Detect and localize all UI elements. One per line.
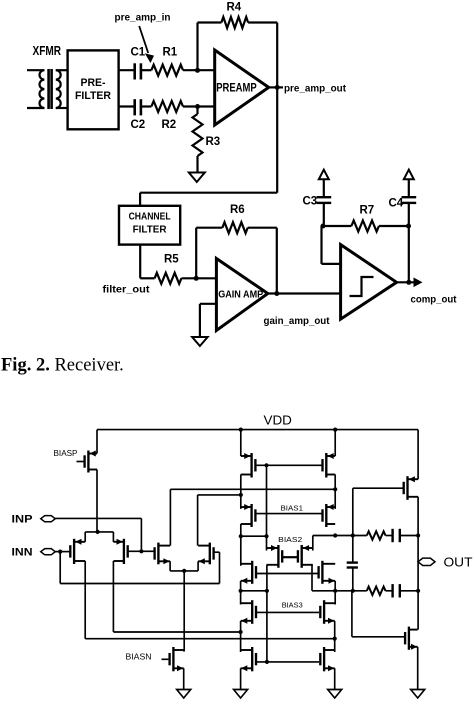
wire C1 to R1 — [141, 69, 152, 71]
wire M3 drain cross to right column — [169, 489, 171, 545]
svg-text:comp_out: comp_out — [411, 295, 458, 306]
svg-text:BIAS2: BIAS2 — [278, 535, 302, 544]
comparator — [341, 245, 397, 320]
svg-text:R1: R1 — [163, 47, 178, 59]
svg-text:gain_amp_out: gain_amp_out — [264, 316, 331, 327]
op-amp GAIN AMP — [216, 259, 267, 331]
wire left column MP3 to MP5 — [240, 475, 242, 509]
svg-text:XFMR: XFMR — [33, 44, 62, 58]
transistor MP6 (PMOS cascode BIAS1 right) — [323, 504, 336, 527]
wire MNOUT gate — [352, 636, 405, 638]
port INN — [41, 549, 56, 555]
wire output node vertical — [417, 497, 419, 630]
node gain_amp_out — [268, 292, 341, 294]
transformer XFMR — [27, 69, 68, 109]
supply arrow above C3 — [319, 170, 329, 180]
wire BIAS1 gate tie — [255, 513, 322, 515]
transistor MP3 (PMOS mirror top left) — [241, 453, 256, 478]
svg-text:BIAS3: BIAS3 — [282, 600, 303, 609]
hysteresis symbol — [350, 277, 374, 296]
wire BIASN source to ground — [183, 668, 185, 689]
wire BIASN gate stub — [162, 658, 169, 660]
wire right column MP4 to MP6 — [334, 475, 336, 509]
capacitor Cz2 on rail2 — [386, 590, 393, 592]
transistor M1 (PMOS input pair left) — [70, 539, 85, 564]
wire MNC_R source to ground — [334, 668, 336, 689]
wire R4 to pre_amp_out — [248, 21, 277, 23]
svg-text:filter_out: filter_out — [103, 285, 151, 296]
resistor R6 — [222, 222, 247, 233]
transistor MBIASN (NMOS bias) — [170, 647, 184, 671]
resistor Rz2 on rail2 — [367, 587, 386, 595]
wire M2 drain to left column node — [113, 631, 240, 633]
transistor MNA_L (NMOS cascode left) — [241, 561, 256, 584]
svg-text:Fig. 2. Receiver.: Fig. 2. Receiver. — [1, 355, 124, 375]
wire MN3R source down to row C — [334, 621, 336, 652]
port INP — [41, 516, 56, 522]
wire rail1 left segment — [241, 535, 267, 537]
transistor MNC_L (NMOS tail left) — [241, 647, 256, 671]
supply arrow above C4 — [404, 170, 414, 180]
wire row C gate tie — [256, 661, 319, 663]
svg-text:BIASN: BIASN — [126, 653, 152, 662]
wire BIASN drain stub up — [183, 650, 185, 652]
svg-text:R2: R2 — [162, 119, 177, 131]
svg-text:pre_amp_in: pre_amp_in — [115, 13, 171, 24]
transistor MNOUT (NMOS output) — [405, 627, 418, 650]
svg-text:INN: INN — [12, 546, 33, 558]
transistor MB2L (PMOS BIAS2 left) — [267, 545, 283, 568]
wire R7 to C4 node — [379, 225, 410, 227]
svg-text:CHANNEL: CHANNEL — [129, 212, 171, 223]
capacitor Cc between rails — [347, 561, 358, 563]
wire rail2 left segment — [241, 590, 267, 592]
wire BIASP drain to VDD — [96, 430, 98, 454]
svg-text:R7: R7 — [360, 205, 375, 217]
transistor M2 (PMOS input pair right) — [113, 539, 127, 564]
svg-text:FILTER: FILTER — [75, 90, 111, 102]
transistor MN3R (NMOS BIAS3 right) — [320, 600, 334, 624]
wire MP5 drain to rail1 left — [240, 524, 242, 566]
wire MNOUT source to ground — [417, 647, 419, 690]
wire C2 to R2 — [141, 105, 152, 107]
block CHANNEL FILTER — [119, 206, 180, 245]
svg-text:BIASP: BIASP — [54, 449, 78, 458]
wire INN to M1 gate — [55, 551, 70, 553]
wire BIAS3 gate tie — [256, 611, 319, 613]
wire left column VDD to MP3 — [240, 430, 242, 456]
wire MNC_L source to ground — [240, 668, 242, 689]
wire comparator output comp_out — [408, 226, 410, 282]
wire pair2 tail to BIASN drain — [183, 571, 185, 652]
wire M3 gate to INP node — [141, 550, 154, 552]
wire MN3L source down to row C — [240, 621, 242, 652]
wire MNA_L source down — [240, 581, 242, 605]
transistor MB2R (PMOS BIAS2 right) — [298, 545, 313, 568]
gain amp grounded input — [200, 303, 217, 305]
wire BIASP source to diff pair tail — [96, 470, 98, 532]
svg-text:GAIN AMP: GAIN AMP — [218, 288, 263, 300]
transistor MN3L (NMOS BIAS3 left) — [241, 600, 256, 624]
svg-text:INP: INP — [12, 513, 33, 525]
wire MPOUT gate — [353, 487, 404, 489]
wire BIAS2R drain down — [311, 565, 313, 591]
wire NMOS cascode gate tie — [256, 573, 319, 575]
wire BIAS2L drain down to row C gate — [266, 565, 268, 662]
node pre_amp_out — [269, 86, 283, 88]
wire BIAS2R source to rail1 right — [312, 536, 314, 551]
svg-text:BIAS1: BIAS1 — [281, 503, 304, 512]
svg-text:R4: R4 — [227, 2, 242, 14]
wire M4 drain cross to left column — [197, 495, 199, 546]
resistor R5 — [155, 273, 182, 284]
transistor M3 (NMOS input pair left) — [155, 543, 171, 565]
capacitor C3 — [317, 196, 332, 198]
wire R7 rail — [322, 225, 352, 227]
wire pair1 common source rail — [85, 531, 113, 533]
svg-text:OUT: OUT — [444, 556, 473, 570]
svg-text:PREAMP: PREAMP — [216, 80, 257, 94]
wire right column VDD to MP4 — [334, 430, 336, 456]
svg-text:C3: C3 — [303, 196, 318, 208]
svg-text:FILTER: FILTER — [133, 225, 168, 236]
svg-text:PRE-: PRE- — [81, 77, 106, 89]
wire M1 drain to right column node — [85, 638, 335, 640]
wire MP3 MP4 gate tie — [255, 464, 322, 466]
transistor MBIASP (PMOS bias) — [85, 451, 97, 473]
wire R1 to preamp input, node pre_amp_in — [183, 69, 215, 71]
wire gate tie down to cascode node — [266, 465, 268, 536]
resistor R7 — [351, 221, 379, 232]
pre_amp_in pointer arrow — [139, 26, 148, 53]
svg-text:VDD: VDD — [264, 413, 292, 428]
svg-text:R3: R3 — [206, 136, 221, 148]
port OUT — [418, 558, 435, 565]
resistor R4 — [221, 17, 248, 28]
svg-text:C1: C1 — [131, 47, 146, 59]
wire pre_amp_out down to channel filter — [276, 87, 278, 192]
svg-text:pre_amp_out: pre_amp_out — [284, 83, 347, 94]
capacitor C1 — [133, 63, 136, 79]
wire M2 drain down — [112, 561, 114, 632]
op-amp PREAMP — [215, 50, 269, 125]
wire BIASP gate stub — [77, 461, 85, 463]
wire M2 gate to INP node — [128, 550, 142, 552]
wire pre-filter upper output — [119, 69, 135, 71]
wire comparator feedback input — [322, 263, 341, 265]
svg-text:R6: R6 — [230, 204, 245, 216]
wire INN cross-couple to M4 gate — [59, 552, 61, 584]
transistor MPOUT (PMOS output) — [404, 476, 418, 500]
wire R5 to gain amp input — [181, 277, 216, 279]
ground below BIASN — [177, 690, 191, 699]
wire MPOUT source to VDD — [417, 430, 419, 480]
capacitor C2 — [133, 99, 136, 115]
svg-text:C2: C2 — [131, 119, 146, 131]
wire R6 to gain_amp_out — [248, 227, 277, 229]
transistor MP4 (PMOS mirror top right) — [323, 453, 336, 478]
capacitor C4 — [402, 196, 417, 198]
wire MNA_R source down — [334, 581, 336, 605]
transistor MNA_R (NMOS cascode right) — [319, 561, 336, 584]
wire M1 drain down — [84, 561, 86, 639]
transistor M4 (NMOS input pair right) — [198, 543, 214, 565]
ground below MNC_L — [234, 690, 248, 699]
wire rail2 right segment — [312, 590, 367, 592]
resistor R3 — [196, 107, 198, 115]
VDD rail — [97, 429, 418, 431]
ground below MNC_R — [328, 690, 342, 699]
resistor R6 feedback loop — [195, 228, 197, 279]
transistor MP5 (PMOS cascode BIAS1 left) — [241, 504, 256, 527]
resistor Rz1 on rail1 — [367, 531, 386, 539]
resistor R4 feedback loop — [196, 23, 198, 71]
transistor MNC_R (NMOS tail right) — [320, 647, 334, 671]
ground below gain amp — [192, 337, 208, 346]
wire R2 to preamp input — [183, 105, 215, 107]
wire BIAS2 gate tie bars — [282, 556, 298, 558]
resistor R1 — [151, 65, 183, 76]
ground below MNOUT — [411, 690, 425, 699]
capacitor Cz1 on rail1 — [386, 535, 393, 537]
resistor R2 — [151, 101, 183, 112]
wire pair2 common source rail — [169, 561, 171, 571]
wire pre-filter lower output — [119, 105, 135, 107]
ground below R3 — [189, 173, 205, 183]
wire BIAS2L source riser — [266, 536, 268, 550]
wire channel filter to R5 — [139, 245, 141, 279]
svg-text:R5: R5 — [164, 254, 179, 266]
svg-text:C4: C4 — [389, 198, 404, 210]
wire INP to second stage — [55, 517, 141, 519]
block PRE-FILTER — [68, 50, 119, 129]
